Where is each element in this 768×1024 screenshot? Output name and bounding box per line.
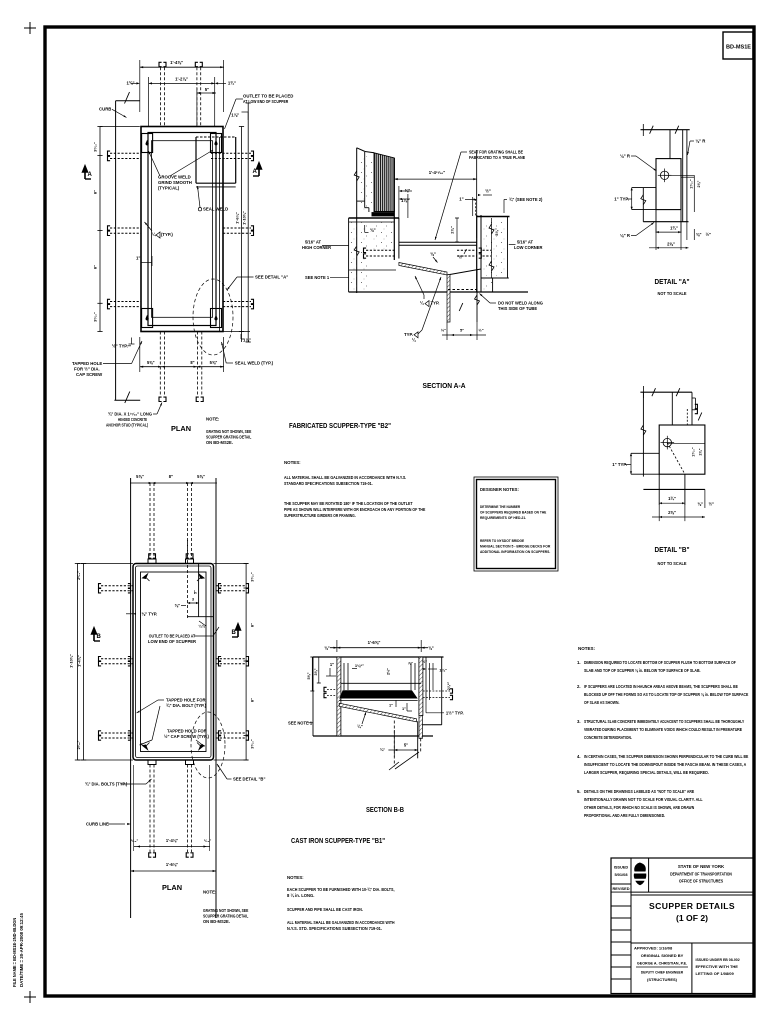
svg-text:THE SCUPPER MAY BE ROTATED 180: THE SCUPPER MAY BE ROTATED 180° IF THE L…	[284, 501, 413, 506]
detail B drawing	[631, 386, 705, 521]
left dim columns plan B1	[69, 564, 134, 761]
svg-text:1¾": 1¾"	[670, 226, 678, 231]
registration mark bottom-left	[24, 991, 36, 1003]
svg-text:8": 8"	[190, 360, 194, 365]
svg-text:(TYPICAL): (TYPICAL)	[158, 186, 180, 191]
svg-text:2⅝": 2⅝"	[667, 242, 675, 247]
sheet number box BD-MS1E	[723, 32, 753, 59]
svg-text:FABRICATED TO A TRUE PLANE: FABRICATED TO A TRUE PLANE	[469, 155, 525, 160]
svg-text:SECTION A-A: SECTION A-A	[423, 381, 466, 390]
svg-text:ADDITIONAL INFORMATION ON SCUP: ADDITIONAL INFORMATION ON SCUPPERS.	[480, 549, 550, 554]
svg-text:1'-6⅝": 1'-6⅝"	[368, 640, 381, 645]
right dim column plan B2	[223, 103, 251, 343]
title PLAN (B2)	[171, 424, 191, 433]
anchor studs above plan B2	[159, 62, 202, 126]
svg-text:A: A	[88, 172, 93, 178]
svg-text:1" TYP.: 1" TYP.	[614, 197, 629, 202]
label see note 1 B-B	[288, 720, 313, 725]
svg-text:STATE OF NEW YORK: STATE OF NEW YORK	[678, 864, 725, 869]
label outlet to be placed at low end of scupper	[225, 94, 294, 130]
svg-text:1.: 1.	[577, 660, 581, 665]
svg-text:FOR ½" DIA.: FOR ½" DIA.	[74, 367, 100, 372]
svg-text:½": ½"	[706, 232, 711, 237]
svg-text:2⅝": 2⅝"	[668, 510, 676, 515]
svg-text:OFFICE OF STRUCTURES: OFFICE OF STRUCTURES	[679, 879, 723, 884]
svg-text:DETERMINE THE NUMBER: DETERMINE THE NUMBER	[480, 504, 520, 509]
svg-text:GEORGE A. CHRISTIAN, P.E.: GEORGE A. CHRISTIAN, P.E.	[637, 961, 687, 966]
label 5/16 at high corner	[302, 240, 349, 251]
svg-text:ALL MATERIAL SHALL BE GALVANIZ: ALL MATERIAL SHALL BE GALVANIZED IN ACCO…	[284, 475, 406, 480]
label seat for grating	[435, 150, 525, 241]
right top dims section A-A	[459, 189, 543, 217]
anchor studs below plan B2	[159, 332, 203, 402]
svg-text:1⁹⁄₁₆": 1⁹⁄₁₆"	[692, 447, 696, 457]
svg-text:4.: 4.	[577, 754, 581, 759]
svg-text:SCUPPER DETAILS: SCUPPER DETAILS	[649, 901, 735, 911]
tapped-hole bolt rows plan B2	[108, 151, 254, 309]
svg-text:⅜" TYP.: ⅜" TYP.	[142, 612, 158, 617]
section A-A drawing	[349, 148, 528, 322]
detail A drawing	[632, 124, 695, 250]
svg-text:1⅞": 1⅞"	[231, 113, 239, 118]
svg-text:N.Y.S. STD. SPECIFICATIONS SUB: N.Y.S. STD. SPECIFICATIONS SUBSECTION 71…	[287, 926, 382, 931]
svg-text:NOTES:: NOTES:	[578, 646, 596, 651]
svg-text:REVISED: REVISED	[612, 886, 629, 891]
svg-text:8": 8"	[93, 190, 98, 194]
svg-text:EFFECTIVE WITH THE: EFFECTIVE WITH THE	[696, 964, 739, 969]
note grating not shown B1	[203, 890, 249, 925]
svg-text:1'-6⅛": 1'-6⅛"	[166, 862, 178, 867]
section cut arrows A-A	[83, 163, 262, 179]
designer notes box	[474, 477, 558, 571]
svg-text:¾" DIA. BOLT (TYP.): ¾" DIA. BOLT (TYP.)	[166, 703, 207, 708]
label 3/4 dia bolts typ	[85, 779, 152, 787]
left dims section B-B	[307, 657, 451, 691]
svg-text:ON BD-MS2E.: ON BD-MS2E.	[203, 919, 230, 924]
detail A vertical dims rotated	[689, 175, 701, 212]
svg-text:5": 5"	[460, 328, 464, 333]
svg-text:½": ½"	[478, 328, 483, 333]
svg-text:8": 8"	[169, 474, 173, 479]
svg-text:1½" TYP.: 1½" TYP.	[446, 710, 464, 715]
svg-text:SCUPPER GRATING DETAIL: SCUPPER GRATING DETAIL	[203, 914, 249, 919]
svg-text:IF SCUPPERS ARE LOCATED IN HAU: IF SCUPPERS ARE LOCATED IN HAUNCH AREAS …	[584, 684, 738, 689]
svg-text:THIS SIDE OF TUBE: THIS SIDE OF TUBE	[498, 306, 537, 311]
svg-text:1": 1"	[330, 662, 334, 667]
svg-text:BLOCKED UP OFF THE FORMS SO AS: BLOCKED UP OFF THE FORMS SO AS TO LOCATE…	[584, 692, 748, 697]
svg-text:½": ½"	[485, 189, 491, 194]
svg-text:⁵⁄₁₆": ⁵⁄₁₆"	[204, 839, 212, 843]
svg-text:STRUCTURAL SLAB CONCRETE IMMED: STRUCTURAL SLAB CONCRETE IMMEDIATELY ADJ…	[584, 719, 744, 724]
general notes column	[577, 646, 748, 818]
svg-text:⅛" R: ⅛" R	[620, 154, 631, 159]
svg-text:2.: 2.	[577, 684, 581, 689]
svg-text:5⅝": 5⅝"	[136, 474, 144, 479]
svg-text:PROPORTIONAL AND ARE FULLY DIM: PROPORTIONAL AND ARE FULLY DIMENSIONED.	[584, 813, 665, 818]
dims 1 and 1 under grate	[389, 700, 412, 711]
svg-text:GRATING NOT SHOWN, SEE: GRATING NOT SHOWN, SEE	[203, 908, 249, 913]
svg-text:OF SCUPPERS REQUIRED BASED ON: OF SCUPPERS REQUIRED BASED ON THE	[480, 510, 547, 515]
svg-text:2³⁄₁₆": 2³⁄₁₆"	[77, 740, 81, 749]
svg-text:⁵⁄₁₆": ⁵⁄₁₆"	[131, 839, 139, 843]
dim 3/8 and 1 13/16 left of seat	[399, 186, 412, 218]
svg-text:¾" (SEE NOTE 2): ¾" (SEE NOTE 2)	[509, 197, 543, 202]
svg-text:CURB: CURB	[99, 106, 111, 111]
svg-text:⅜": ⅜"	[430, 252, 436, 257]
label tapped hole for cap screw	[72, 341, 142, 377]
svg-text:MANUAL SECTION 5 - BRIDGE DECK: MANUAL SECTION 5 - BRIDGE DECKS FOR	[480, 544, 550, 549]
svg-text:8": 8"	[93, 265, 98, 269]
svg-text:½": ½"	[422, 659, 427, 664]
svg-text:5⅝": 5⅝"	[307, 672, 311, 679]
label outlet low end B1	[148, 627, 219, 644]
svg-text:OUTLET TO BE PLACED: OUTLET TO BE PLACED	[243, 94, 293, 99]
title DETAIL A	[655, 277, 690, 296]
section cut arrows B-B	[92, 624, 241, 641]
svg-text:SEE DETAIL "B": SEE DETAIL "B"	[233, 777, 265, 782]
weld symbol 1/2 right of seat	[458, 249, 466, 260]
svg-text:SCUPPER GRATING DETAIL: SCUPPER GRATING DETAIL	[206, 435, 252, 440]
tube hidden edge in right wall	[219, 137, 221, 331]
svg-text:SUPERSTRUCTURE GIRDERS OR FRAM: SUPERSTRUCTURE GIRDERS OR FRAMING.	[284, 513, 356, 518]
svg-text:1'-6⅛": 1'-6⅛"	[235, 212, 240, 224]
svg-text:APPROVED: 1/16/08: APPROVED: 1/16/08	[634, 946, 673, 951]
svg-text:¼: ¼	[412, 338, 416, 343]
svg-text:PLAN: PLAN	[171, 424, 191, 433]
dim 1'-2 7/8	[149, 77, 215, 126]
svg-text:SEAT FOR GRATING SHALL BE: SEAT FOR GRATING SHALL BE	[469, 150, 523, 155]
label 1/2 typ bottom left	[112, 338, 135, 349]
title FABRICATED SCUPPER-TYPE B2	[289, 421, 391, 430]
svg-text:BD-MS1E: BD-MS1E	[726, 45, 751, 51]
anchor studs below plan B1	[149, 765, 193, 858]
svg-text:LETTING OF 1/08/09: LETTING OF 1/08/09	[696, 971, 735, 976]
anchor studs above plan B1	[149, 483, 193, 559]
svg-text:NOTE:: NOTE:	[203, 890, 217, 895]
svg-text:GROOVE WELD: GROOVE WELD	[158, 175, 191, 180]
svg-text:1": 1"	[402, 706, 406, 711]
svg-text:STANDARD SPECIFICATIONS SUBSEC: STANDARD SPECIFICATIONS SUBSECTION 719-0…	[284, 481, 373, 486]
svg-text:1'-10⅜": 1'-10⅜"	[69, 654, 74, 668]
svg-text:⅜": ⅜"	[428, 645, 433, 650]
label see detail A	[227, 275, 288, 291]
svg-text:8 ¼ in. LONG.: 8 ¼ in. LONG.	[287, 893, 314, 898]
svg-text:CURB LINE: CURB LINE	[86, 822, 109, 827]
svg-text:¾": ¾"	[380, 747, 385, 752]
svg-text:½" TYP.: ½" TYP.	[112, 344, 128, 349]
svg-text:OF SLAB AS SHOWN.: OF SLAB AS SHOWN.	[584, 700, 619, 705]
svg-text:SEAL WELD: SEAL WELD	[203, 207, 228, 212]
title SECTION B-B	[366, 805, 404, 814]
dim 1 3/4 left / right	[126, 81, 235, 86]
svg-text:5/16" AT: 5/16" AT	[517, 240, 534, 245]
svg-text:NOT TO SCALE: NOT TO SCALE	[658, 561, 687, 566]
detail circle B	[191, 712, 225, 778]
svg-text:8": 8"	[250, 623, 255, 627]
weld 1/4 typ lower2	[404, 277, 441, 343]
svg-text:5": 5"	[205, 87, 209, 92]
svg-text:1¾": 1¾"	[668, 496, 676, 501]
left dim column plan B2	[93, 127, 140, 332]
detail B vertical dims rotated	[692, 447, 703, 457]
svg-text:VIBRATED DURING PLACEMENT TO E: VIBRATED DURING PLACEMENT TO ELIMINATE V…	[584, 727, 742, 732]
margin plot info text	[12, 913, 24, 987]
svg-text:5": 5"	[404, 743, 408, 748]
svg-text:INSUFFICIENT TO LOCATE THE DOW: INSUFFICIENT TO LOCATE THE DOWNSPOUT INS…	[584, 762, 747, 767]
svg-text:1¼": 1¼"	[439, 668, 447, 673]
svg-text:⅜": ⅜"	[696, 232, 701, 237]
svg-text:ORIGINAL SIGNED BY: ORIGINAL SIGNED BY	[641, 953, 684, 958]
svg-text:ISSUED UNDER EB 08-002: ISSUED UNDER EB 08-002	[696, 957, 741, 962]
svg-text:OTHER DETAILS, FOR WHICH NO SC: OTHER DETAILS, FOR WHICH NO SCALE IS SHO…	[584, 805, 694, 810]
svg-text:NOTES:: NOTES:	[287, 875, 304, 880]
svg-text:3⁹⁄₁₆": 3⁹⁄₁₆"	[251, 572, 255, 582]
svg-text:LOW CORNER: LOW CORNER	[514, 245, 542, 250]
svg-text:⅜": ⅜"	[370, 228, 376, 233]
svg-text:⅜": ⅜"	[698, 502, 703, 507]
svg-text:⅛" R: ⅛" R	[620, 233, 631, 238]
svg-text:1⅛⁶": 1⅛⁶"	[355, 663, 364, 668]
svg-text:DATE/TIME = 30-APR-2008 09:12:: DATE/TIME = 30-APR-2008 09:12:45	[19, 913, 24, 987]
svg-text:DETAIL "B": DETAIL "B"	[655, 545, 690, 554]
svg-text:DIMENSION REQUIRED TO LOCATE B: DIMENSION REQUIRED TO LOCATE BOTTOM OF S…	[584, 660, 736, 665]
svg-text:1": 1"	[389, 703, 393, 708]
svg-text:ALL MATERIAL SHALL BE GALVANIZ: ALL MATERIAL SHALL BE GALVANIZED IN ACCO…	[287, 920, 395, 925]
svg-text:GRATING NOT SHOWN, SEE: GRATING NOT SHOWN, SEE	[206, 429, 252, 434]
svg-text:TAPPED HOLE FOR: TAPPED HOLE FOR	[166, 698, 205, 703]
svg-text:½": ½"	[709, 502, 714, 507]
dim 1'-4 13/16 section A-A	[394, 150, 476, 238]
bolt rows plan B1	[99, 584, 249, 741]
svg-text:DEPARTMENT OF TRANSPORTATION: DEPARTMENT OF TRANSPORTATION	[670, 872, 732, 877]
plan view: cast iron scupper type B1	[131, 478, 216, 918]
svg-text:2³⁄₁₆": 2³⁄₁₆"	[77, 571, 81, 580]
svg-text:ISSUED: ISSUED	[614, 865, 629, 870]
svg-text:FILE NAME = BD-MS1E-2ND-08.DGN: FILE NAME = BD-MS1E-2ND-08.DGN	[12, 917, 17, 987]
label 1 1/2 typ	[426, 701, 464, 716]
svg-text:1⅞": 1⅞"	[243, 338, 251, 343]
detail A labels	[620, 154, 657, 172]
svg-text:3⅜": 3⅜"	[314, 668, 318, 675]
svg-text:5/01/08: 5/01/08	[615, 872, 629, 877]
corner gusset pads with stud weld symbols	[142, 134, 222, 328]
notes for B2	[284, 460, 425, 518]
label groove weld grind smooth	[149, 150, 214, 191]
svg-text:DESIGNER NOTES:: DESIGNER NOTES:	[480, 487, 519, 492]
svg-text:3⁹⁄₁₆": 3⁹⁄₁₆"	[94, 142, 98, 152]
svg-text:CAST IRON SCUPPER-TYPE "B1": CAST IRON SCUPPER-TYPE "B1"	[291, 836, 385, 845]
svg-text:¼": ¼"	[357, 724, 362, 729]
svg-text:INTENTIONALLY DRAWN NOT TO SCA: INTENTIONALLY DRAWN NOT TO SCALE FOR VIS…	[584, 797, 703, 802]
svg-text:TAPPED HOLE: TAPPED HOLE	[72, 361, 102, 366]
svg-text:DO NOT WELD ALONG: DO NOT WELD ALONG	[498, 301, 543, 306]
svg-text:NOT TO SCALE: NOT TO SCALE	[658, 291, 687, 296]
svg-text:½": ½"	[458, 255, 464, 260]
detail B labels	[612, 453, 632, 474]
svg-text:5": 5"	[193, 590, 198, 594]
svg-text:3⁹⁄₁₆": 3⁹⁄₁₆"	[94, 312, 98, 322]
svg-text:5⅝": 5⅝"	[197, 474, 205, 479]
detail B bottom dims	[652, 496, 705, 518]
title PLAN (B1)	[162, 883, 182, 892]
svg-text:⅜": ⅜"	[175, 603, 180, 608]
label curb	[99, 106, 127, 117]
label 5/16 at low corner	[509, 240, 543, 251]
svg-text:SEE DETAIL "A": SEE DETAIL "A"	[255, 275, 288, 280]
label curb line	[86, 822, 131, 827]
svg-text:NOTE:: NOTE:	[206, 417, 220, 422]
notes for B1	[287, 875, 395, 931]
svg-text:REQUIREMENTS OF HED-21.: REQUIREMENTS OF HED-21.	[480, 515, 526, 520]
svg-text:2⅝": 2⅝"	[450, 226, 455, 234]
label anchor stud typical	[106, 403, 162, 428]
right dim column plan B1	[214, 564, 255, 761]
svg-text:REFER TO NYSDOT BRIDGE: REFER TO NYSDOT BRIDGE	[480, 538, 524, 543]
svg-text:¼: ¼	[152, 232, 156, 237]
svg-text:SEAL WELD (TYP.): SEAL WELD (TYP.)	[235, 361, 274, 366]
label seal weld	[197, 186, 228, 212]
weld 1/4 typ lower left	[415, 276, 440, 307]
label 1/4 weld B-B	[357, 712, 366, 729]
dim 5 in outlet	[197, 87, 216, 126]
svg-text:LARGER SCUPPER, REQUIRING SPEC: LARGER SCUPPER, REQUIRING SPECIAL DETAIL…	[584, 770, 709, 775]
svg-text:OUTLET TO BE PLACED AT: OUTLET TO BE PLACED AT	[149, 634, 196, 639]
svg-text:IN CERTAIN CASES, THE SCUPPER: IN CERTAIN CASES, THE SCUPPER DIMENSION …	[584, 754, 748, 759]
top dim row plan B1	[130, 474, 217, 484]
svg-text:HEADED CONCRETE: HEADED CONCRETE	[118, 417, 147, 422]
svg-text:2½": 2½"	[387, 668, 391, 675]
svg-text:⅞": ⅞"	[408, 661, 413, 666]
svg-text:3⅜": 3⅜"	[494, 228, 499, 236]
svg-text:DEPUTY CHIEF ENGINEER: DEPUTY CHIEF ENGINEER	[641, 970, 683, 975]
svg-text:3.: 3.	[577, 719, 581, 724]
svg-text:2⅜": 2⅜"	[699, 448, 703, 455]
NYSDOT emblem	[634, 863, 646, 886]
svg-text:CONCRETE DETERIORATION.: CONCRETE DETERIORATION.	[584, 735, 632, 740]
dim 1 inch left inside	[136, 256, 152, 267]
title block text	[631, 864, 754, 994]
svg-text:A: A	[253, 169, 258, 175]
svg-text:1": 1"	[459, 197, 463, 202]
svg-text:¼: ¼	[420, 301, 424, 306]
label do not weld along this side of tube	[480, 294, 543, 312]
svg-text:EACH SCUPPER TO BE FURNISHED W: EACH SCUPPER TO BE FURNISHED WITH 10-¾" …	[287, 887, 395, 892]
title DETAIL B	[655, 545, 690, 566]
svg-text:GRIND SMOOTH: GRIND SMOOTH	[158, 180, 192, 185]
bottom tube dims A-A	[441, 322, 486, 340]
curb line left of plan B2	[116, 92, 140, 400]
svg-text:1'-10⅜": 1'-10⅜"	[242, 211, 247, 225]
svg-text:⅛" R: ⅛" R	[695, 139, 706, 144]
section B-B drawing	[313, 640, 453, 770]
svg-text:TYP.: TYP.	[404, 332, 413, 337]
label tapped hold for cap screw	[164, 729, 209, 747]
svg-text:5/16" AT: 5/16" AT	[305, 240, 322, 245]
title SECTION A-A	[423, 381, 466, 390]
registration mark top-left	[24, 22, 36, 34]
svg-text:PLAN: PLAN	[162, 883, 182, 892]
svg-text:1'-4¹³⁄₁₆": 1'-4¹³⁄₁₆"	[429, 170, 446, 175]
svg-text:½" CAP SCREW (TYP.): ½" CAP SCREW (TYP.)	[164, 734, 209, 739]
svg-text:⅜": ⅜"	[405, 188, 411, 193]
bottom tube dim B-B	[380, 730, 418, 757]
bottom dim row plan B2	[140, 337, 224, 372]
svg-text:(1 OF 2): (1 OF 2)	[676, 914, 708, 923]
svg-text:DETAILS ON THE DRAWINGS LABELE: DETAILS ON THE DRAWINGS LABELED AS "NOT …	[584, 789, 694, 794]
svg-text:B: B	[97, 634, 102, 640]
svg-text:¼¼": ¼¼"	[198, 625, 206, 629]
svg-text:1'-2⅞": 1'-2⅞"	[175, 77, 188, 82]
label tapped hole for 3/4 bolt	[137, 698, 207, 746]
outlet tube (plan)	[196, 137, 236, 187]
svg-text:1¾": 1¾"	[228, 81, 236, 86]
svg-text:⅜": ⅜"	[324, 645, 329, 650]
svg-text:PIPE AS SHOWN WILL INTERFERE W: PIPE AS SHOWN WILL INTERFERE WITH OR ENC…	[284, 507, 425, 512]
weld symbol 1/4 typ	[145, 222, 174, 238]
svg-text:1" TYP.: 1" TYP.	[612, 462, 627, 467]
dim 1 7/8 right upper	[231, 112, 248, 120]
svg-text:SCUPPER AND PIPE SHALL BE CAST: SCUPPER AND PIPE SHALL BE CAST IRON.	[287, 907, 363, 912]
svg-text:(TYP.): (TYP.)	[161, 232, 173, 237]
svg-text:LOW END OF SCUPPER: LOW END OF SCUPPER	[148, 639, 196, 644]
svg-text:ON BD-MS2E.: ON BD-MS2E.	[206, 440, 233, 445]
svg-text:NOTES:: NOTES:	[284, 460, 301, 465]
detail circle A	[193, 279, 233, 355]
svg-text:SLAB AND TOP OF SCUPPER ⅛ in.: SLAB AND TOP OF SCUPPER ⅛ in. BELOW TOP …	[584, 668, 701, 673]
svg-text:DETAIL "A": DETAIL "A"	[655, 277, 690, 286]
svg-text:3⁹⁄₁₆": 3⁹⁄₁₆"	[251, 739, 255, 749]
svg-text:ANCHOR STUD (TYPICAL): ANCHOR STUD (TYPICAL)	[106, 423, 149, 428]
title CAST IRON SCUPPER-TYPE B1	[291, 836, 385, 845]
svg-text:1'-4⅝": 1'-4⅝"	[77, 655, 82, 667]
bottom dims plan B1	[131, 765, 216, 872]
note grating not shown B2	[206, 417, 252, 446]
weld symbol 3/8 mid	[430, 252, 437, 263]
dim 1'-4 5/8 top of plan B2	[140, 60, 224, 112]
svg-text:FABRICATED SCUPPER-TYPE "B2": FABRICATED SCUPPER-TYPE "B2"	[289, 421, 391, 430]
vertical dims 2 5/8 and 3 1/8	[450, 218, 499, 242]
svg-text:TAPPED HOLD FOR: TAPPED HOLD FOR	[167, 729, 207, 734]
svg-text:1": 1"	[136, 256, 140, 261]
svg-text:2⅞⁶": 2⅞⁶"	[447, 681, 451, 690]
svg-text:½": ½"	[441, 328, 446, 333]
svg-text:5⅝": 5⅝"	[147, 360, 155, 365]
svg-text:1'-4⅝": 1'-4⅝"	[170, 60, 183, 65]
outlet lines plan B1	[175, 540, 214, 629]
label 3/8 under slab	[365, 225, 376, 233]
svg-text:¾" DIA. X 1¹⁵⁄₁₆" LONG: ¾" DIA. X 1¹⁵⁄₁₆" LONG	[108, 412, 152, 417]
svg-text:5⅝": 5⅝"	[210, 360, 218, 365]
svg-text:5.: 5.	[577, 789, 581, 794]
svg-text:B: B	[232, 630, 237, 636]
svg-text:2⅜": 2⅜"	[697, 180, 701, 187]
dim 3 3/8 at low corner	[491, 218, 493, 278]
svg-text:8": 8"	[250, 698, 255, 702]
svg-text:SEE NOTE 1: SEE NOTE 1	[305, 275, 330, 280]
label see detail B	[217, 764, 265, 782]
svg-text:1⁹⁄₁₆": 1⁹⁄₁₆"	[689, 179, 693, 189]
detail A bottom dims	[649, 226, 689, 249]
svg-text:(STRUCTURES): (STRUCTURES)	[647, 977, 678, 982]
label 3/8 typ B1	[126, 612, 157, 617]
label seal weld typ	[221, 342, 273, 366]
svg-text:1'-4⅛": 1'-4⅛"	[166, 838, 178, 843]
plan view: fabricated scupper type B2	[141, 127, 223, 332]
svg-text:CAP SCREW: CAP SCREW	[76, 372, 103, 377]
svg-text:SECTION B-B: SECTION B-B	[366, 805, 404, 814]
title block	[611, 858, 754, 994]
label see note 1 (A-A)	[305, 275, 349, 280]
